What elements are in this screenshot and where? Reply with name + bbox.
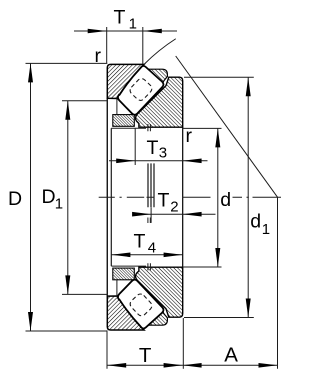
svg-text:T: T: [158, 190, 170, 212]
A extension right (load centre): [277, 197, 279, 369]
triple lines at mid plane: [148, 163, 154, 207]
T extension left: [106, 330, 108, 368]
d1 extension top: [184, 76, 254, 78]
D1 bottom arrow: [65, 275, 70, 294]
d extension top: [183, 127, 222, 129]
d extension bottom: [183, 266, 222, 268]
D extension bottom: [26, 330, 108, 332]
A dimension line: [183, 364, 278, 366]
cage sleeve line (top): [111, 127, 146, 129]
D dimension line: [30, 63, 32, 331]
T dimension line: [107, 364, 182, 366]
shaft washer back face silhouette: [182, 127, 184, 267]
D1 extension top: [62, 100, 107, 102]
break ticks below T2 line: [148, 218, 150, 224]
D bottom arrow: [28, 312, 33, 331]
svg-text:1: 1: [55, 195, 63, 212]
svg-text:T: T: [134, 231, 146, 253]
load line: [176, 56, 278, 197]
T4 right arrow: [164, 253, 183, 258]
T1 right arrow: [143, 29, 162, 34]
svg-text:1: 1: [262, 221, 270, 238]
cage (bottom): [113, 268, 135, 280]
svg-text:4: 4: [148, 239, 156, 256]
spherical raceway arc (extended): [144, 39, 176, 65]
svg-text:D: D: [42, 186, 56, 208]
svg-text:T: T: [139, 344, 152, 367]
T3 dimension line: [109, 160, 208, 162]
shaft washer lip (bottom): [149, 309, 168, 325]
T3 left arrow: [116, 159, 135, 164]
svg-text:d: d: [220, 189, 231, 211]
centre axis (dash-dot): [99, 196, 281, 198]
cage sleeve inner edge: [110, 128, 112, 266]
svg-text:d: d: [250, 211, 261, 233]
shaft washer lip (top): [149, 69, 168, 85]
T1 extension line right: [142, 27, 144, 64]
T1 dimension line: [74, 30, 177, 32]
housing washer (top section): [107, 64, 144, 98]
shaft washer (bottom section): [136, 267, 183, 317]
T1 extension line left: [106, 27, 108, 64]
T/A extension middle: [182, 318, 184, 369]
roller (top section): [118, 66, 164, 115]
D top arrow: [28, 63, 33, 82]
T right arrow: [164, 363, 183, 368]
d dimension line: [217, 128, 219, 267]
T3 extension line: [134, 129, 136, 166]
housing washer bore edge (top): [116, 98, 118, 114]
D1 top arrow: [65, 101, 70, 120]
d1 dimension line: [247, 77, 249, 317]
T2 dimension line: [136, 213, 216, 215]
d1 extension bottom: [184, 317, 254, 319]
T2 right arrow: [183, 212, 202, 217]
T left arrow: [107, 363, 126, 368]
svg-text:3: 3: [159, 145, 167, 162]
cage sleeve line (bottom): [111, 265, 146, 267]
svg-text:1: 1: [129, 15, 137, 32]
housing washer bore edge (bottom): [116, 280, 118, 296]
T2 extension line: [150, 207, 152, 223]
D extension top: [26, 62, 108, 64]
svg-text:A: A: [224, 344, 238, 367]
d1 top arrow: [246, 77, 251, 96]
D1 extension bottom: [62, 293, 107, 295]
svg-text:T: T: [147, 137, 159, 159]
shaft washer (top section): [136, 77, 183, 127]
housing washer (bottom section): [107, 296, 144, 330]
T4 dimension line: [111, 254, 182, 256]
T2 left arrow: [132, 212, 151, 217]
T3 right arrow: [183, 159, 202, 164]
A right arrow: [259, 363, 278, 368]
d1 bottom arrow: [246, 299, 251, 318]
cage (top): [113, 115, 135, 127]
housing washer back face silhouette: [106, 98, 108, 296]
A left arrow: [183, 363, 202, 368]
break ticks at shaft washer bore (bottom): [148, 263, 151, 270]
roller (bottom section): [118, 280, 164, 329]
break ticks at shaft washer bore (top): [148, 124, 151, 131]
svg-text:D: D: [8, 188, 22, 210]
svg-text:T: T: [114, 7, 126, 29]
d bottom arrow: [215, 248, 220, 267]
T1 left arrow: [88, 29, 107, 34]
cage pocket hidden edge (bottom, dashed): [128, 292, 153, 317]
cage pocket hidden edge (top, dashed): [128, 77, 153, 102]
T4 left arrow: [111, 253, 130, 258]
svg-text:2: 2: [170, 198, 178, 215]
D1 dimension line: [67, 101, 69, 295]
d top arrow: [215, 128, 220, 147]
